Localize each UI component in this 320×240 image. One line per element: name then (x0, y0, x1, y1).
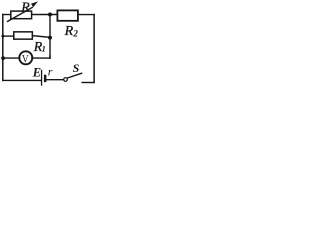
resistor R1 (14, 32, 33, 39)
wire left edge (2, 15, 4, 81)
wire middle vertical (49, 15, 51, 59)
node voltmeter left junction (1, 56, 5, 60)
svg-text:R: R (64, 24, 74, 39)
wire voltmeter branch left (3, 57, 20, 59)
wire R1 branch left (3, 35, 14, 37)
rheostat R (variable resistor) (8, 1, 38, 21)
wire battery to switch (47, 79, 64, 81)
svg-text:E: E (32, 65, 41, 79)
wire R2 to top-right corner (79, 14, 95, 16)
node junction middle (48, 36, 52, 40)
label R2 (64, 24, 79, 39)
label E (32, 65, 41, 79)
svg-text:V: V (22, 51, 29, 65)
svg-text:S: S (73, 61, 80, 75)
wire R1 to middle junction (33, 36, 50, 38)
label r (48, 65, 53, 79)
wire rheostat to R2 (32, 14, 57, 16)
resistor R2 (57, 10, 78, 20)
node R1 left junction (1, 35, 4, 38)
wire bottom-left (3, 79, 41, 81)
label R (20, 0, 30, 15)
wire right edge (93, 15, 95, 83)
switch S lever (68, 73, 82, 78)
node junction top (48, 13, 52, 17)
voltmeter V (19, 51, 32, 65)
svg-text:R: R (20, 0, 30, 15)
wire bottom-right (82, 82, 94, 84)
battery E,r positive plate (41, 70, 43, 85)
svg-text:2: 2 (72, 28, 78, 38)
label S (73, 61, 80, 75)
battery E,r negative plate (44, 75, 47, 82)
svg-text:r: r (48, 65, 53, 79)
label R1 (33, 40, 46, 55)
switch S pivot (64, 78, 68, 82)
svg-text:1: 1 (42, 44, 46, 54)
wire voltmeter to middle wire (32, 56, 50, 58)
wire top-left to rheostat (3, 14, 11, 16)
